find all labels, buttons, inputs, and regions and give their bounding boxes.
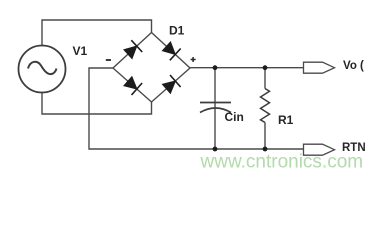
diode D1d bottom-right — [163, 75, 181, 93]
svg-text:V1: V1 — [73, 44, 88, 58]
junction dot R1 top — [263, 65, 268, 70]
connector Vo — [304, 62, 335, 73]
bridge rectifier D1 diamond — [113, 33, 190, 103]
AC source V1 — [19, 46, 66, 93]
wire bridge bottom corner to V1 bottom — [42, 93, 152, 115]
svg-text:R1: R1 — [278, 113, 294, 127]
label minus — [106, 59, 111, 61]
diode D1c bottom-left — [125, 77, 143, 95]
svg-text:Vo (: Vo ( — [343, 60, 364, 72]
junction dot Cin bottom — [213, 147, 218, 152]
junction dot R1 bottom — [263, 147, 268, 152]
connector RTN — [304, 144, 335, 155]
wire R1 top lead — [264, 68, 266, 89]
wire Cin bottom lead — [214, 108, 216, 149]
wire bridge minus corner to RTN rail — [89, 68, 304, 149]
wire V1 top to bridge top corner — [42, 20, 152, 46]
wire R1 bottom lead — [264, 123, 266, 150]
wire Cin top lead — [214, 68, 216, 108]
capacitor Cin plates — [200, 103, 231, 113]
svg-text:D1: D1 — [169, 24, 185, 38]
wire bridge plus corner to Vo rail — [190, 67, 304, 69]
label plus — [191, 57, 196, 62]
resistor R1 zigzag — [261, 89, 270, 123]
svg-text:Cin: Cin — [225, 110, 244, 124]
diode D1a top-left — [125, 40, 143, 58]
junction dot Cin top — [213, 65, 218, 70]
diode D1b top-right — [163, 43, 181, 61]
svg-text:www.cntronics.com: www.cntronics.com — [200, 151, 364, 172]
